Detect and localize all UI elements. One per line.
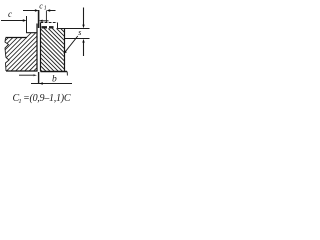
svg-text:s: s <box>78 28 81 37</box>
svg-text:c: c <box>8 9 12 19</box>
svg-text:=(0,9–1,1)C: =(0,9–1,1)C <box>23 93 71 104</box>
svg-text:c: c <box>39 1 43 10</box>
svg-text:1: 1 <box>18 98 21 105</box>
svg-text:1: 1 <box>44 5 47 11</box>
svg-text:b: b <box>52 74 57 84</box>
